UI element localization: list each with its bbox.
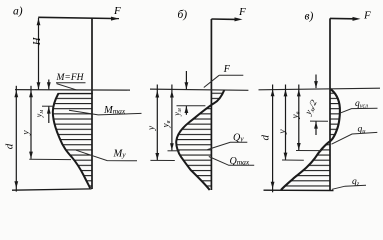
svg-text:б): б) (178, 9, 188, 21)
svg-text:H: H (32, 36, 43, 46)
svg-text:у: у (21, 130, 31, 136)
svg-text:F: F (363, 10, 371, 22)
svg-text:d: d (4, 143, 16, 149)
svg-text:d: d (260, 134, 272, 140)
svg-text:а): а) (13, 6, 23, 18)
svg-text:F: F (238, 6, 246, 18)
svg-text:у: у (147, 125, 157, 131)
svg-text:M=FH: M=FH (56, 73, 85, 83)
svg-text:Mу: Mу (113, 149, 127, 160)
svg-text:F: F (113, 5, 121, 17)
svg-text:у: у (278, 129, 288, 135)
svg-text:в): в) (305, 11, 314, 23)
svg-text:F: F (223, 64, 231, 75)
